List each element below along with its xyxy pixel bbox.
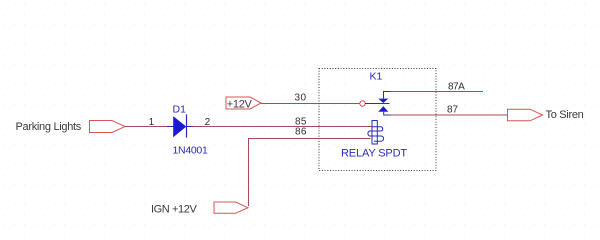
relay NC contact 87A (378, 92, 390, 104)
svg-text:RELAY SPDT: RELAY SPDT (341, 148, 407, 160)
svg-text:To Siren: To Siren (546, 109, 584, 121)
svg-text:30: 30 (295, 93, 307, 104)
port To Siren (508, 109, 543, 121)
relay NO contact 87 (378, 106, 390, 115)
wire net 30 (261, 103, 360, 105)
relay contact circle pin 30 (360, 101, 365, 106)
svg-text:1: 1 (149, 117, 155, 128)
power tag +12V (226, 97, 261, 109)
svg-text:1N4001: 1N4001 (173, 145, 208, 157)
wire net 87A (391, 91, 484, 93)
wire net 87 (391, 114, 508, 116)
port Parking Lights (90, 121, 126, 133)
relay common lever (365, 103, 390, 105)
svg-text:87: 87 (447, 105, 459, 116)
svg-text:Parking Lights: Parking Lights (16, 121, 82, 133)
svg-text:IGN +12V: IGN +12V (151, 204, 197, 216)
svg-text:D1: D1 (173, 104, 187, 116)
svg-text:K1: K1 (370, 71, 383, 83)
diode D1 (167, 114, 193, 137)
wire net 86 (249, 139, 371, 207)
svg-text:+12V: +12V (227, 98, 253, 110)
svg-text:86: 86 (295, 127, 307, 138)
relay coil (368, 121, 384, 145)
svg-text:87A: 87A (448, 82, 465, 93)
wire net 85 (193, 126, 372, 128)
power tag IGN +12V (214, 202, 248, 213)
wire (125, 126, 167, 128)
relay K1 dashed box (319, 69, 436, 171)
